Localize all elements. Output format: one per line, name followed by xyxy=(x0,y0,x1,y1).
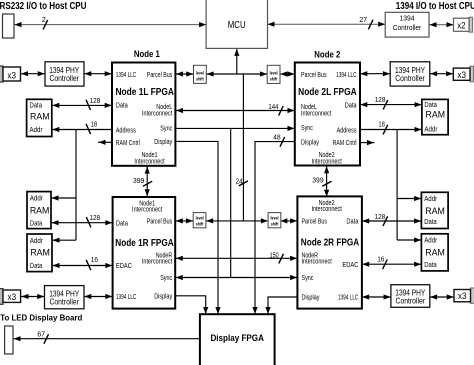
svg-text:Parcel Bus: Parcel Bus xyxy=(302,217,328,226)
svg-text:Address: Address xyxy=(337,125,357,134)
svg-text:Interconnect: Interconnect xyxy=(302,257,332,266)
svg-text:Data: Data xyxy=(424,260,437,269)
svg-text:399: 399 xyxy=(312,175,323,184)
level shift box 2 xyxy=(267,65,280,83)
wire x3 to 1394 PHY (bottom left) xyxy=(21,296,45,298)
svg-text:level: level xyxy=(196,71,204,76)
wire branch to RAM addr (mid left) xyxy=(51,197,76,199)
wire Data 128-bit: RAM - Node 1R xyxy=(51,222,113,224)
wire 1394 Controller to x2 connector xyxy=(429,24,454,26)
svg-text:level: level xyxy=(270,71,278,76)
svg-text:18: 18 xyxy=(378,120,385,129)
svg-text:Display: Display xyxy=(154,137,172,146)
wire bottom Sync: Node 1R - Node 2R xyxy=(175,277,297,279)
wire Node 2L 1394 LLC to 1394 PHY xyxy=(360,73,390,75)
svg-text:Node 2: Node 2 xyxy=(314,49,340,60)
RAM box top right xyxy=(422,99,448,134)
svg-text:Data: Data xyxy=(424,217,437,226)
wire branch to RAM addr (mid right) xyxy=(397,198,421,200)
svg-text:Sync: Sync xyxy=(302,273,314,282)
svg-text:Display FPGA: Display FPGA xyxy=(210,333,264,343)
wire Node2 Interconnect 399-bit between Node 2L and Node 2R xyxy=(326,166,328,198)
wire Address 18-bit: Node 1L - RAM xyxy=(52,129,112,131)
svg-text:Parcel Bus: Parcel Bus xyxy=(147,217,173,226)
svg-text:16: 16 xyxy=(377,255,384,264)
Node 2R FPGA box xyxy=(297,196,362,308)
wire Node 2L Display down to Display FPGA, 48-bit xyxy=(255,142,295,314)
wire branch to RAM addr (lower right) xyxy=(397,239,421,241)
svg-text:Controller: Controller xyxy=(49,298,79,307)
wire 1394 PHY to Node 1R 1394 LLC xyxy=(84,296,113,298)
svg-text:RAM: RAM xyxy=(30,112,50,122)
svg-text:128: 128 xyxy=(375,95,386,104)
wire top Parcel Bus: Node 1L - level shift - level shift - Node 2L xyxy=(175,73,193,75)
x3 connector bottom right xyxy=(471,288,474,303)
level shift box 3 xyxy=(193,213,206,228)
svg-text:Node 2L FPGA: Node 2L FPGA xyxy=(298,87,357,98)
svg-text:16: 16 xyxy=(91,255,98,264)
svg-text:Interconnect: Interconnect xyxy=(311,204,341,213)
wire RS232 connector to MCU, 2-bit xyxy=(14,24,206,26)
svg-text:1394: 1394 xyxy=(400,13,415,22)
Node 2L FPGA box xyxy=(295,63,360,166)
svg-text:150: 150 xyxy=(270,250,279,259)
svg-text:Addr: Addr xyxy=(424,236,438,245)
svg-text:shift: shift xyxy=(271,221,279,226)
svg-text:48: 48 xyxy=(273,133,280,142)
svg-text:128: 128 xyxy=(375,212,386,221)
RAM box mid right xyxy=(421,192,448,228)
svg-text:Interconnect: Interconnect xyxy=(142,257,172,266)
RS232 connector xyxy=(3,14,15,38)
wire 1394 PHY to x3 (bottom right) xyxy=(430,296,454,298)
svg-text:144: 144 xyxy=(268,102,278,111)
Node 1L FPGA box xyxy=(112,63,175,166)
svg-text:x3: x3 xyxy=(457,70,466,80)
wire Node1 Interconnect 399-bit between Node 1L and Node 1R xyxy=(146,166,148,197)
RAM box lower right xyxy=(421,234,448,271)
svg-text:Parcel Bus: Parcel Bus xyxy=(301,70,327,79)
svg-text:Data: Data xyxy=(116,219,129,228)
wire 1394 PHY to Node 1L 1394 LLC xyxy=(84,73,112,75)
wire bottom Parcel Bus: Node 1R - level shift - level shift - Node 2R xyxy=(175,220,193,222)
svg-text:RAM Cntrl: RAM Cntrl xyxy=(116,138,140,147)
svg-text:RAM: RAM xyxy=(30,248,50,258)
svg-text:Data: Data xyxy=(116,101,129,110)
svg-text:Node 1: Node 1 xyxy=(134,49,161,60)
wire Display FPGA to LED display connector, 67-bit xyxy=(13,338,200,340)
x3 connector bottom left xyxy=(0,289,3,305)
RAM box top left xyxy=(27,99,52,136)
level shift box 1 xyxy=(194,65,207,83)
svg-text:Display: Display xyxy=(302,293,320,302)
svg-text:RAM Cntrl: RAM Cntrl xyxy=(333,138,357,147)
svg-text:MCU: MCU xyxy=(228,20,246,31)
svg-text:Display: Display xyxy=(301,137,319,146)
wire address feed down to lower RAMs xyxy=(75,130,77,241)
wire Node 2R 1394 LLC to 1394 PHY xyxy=(362,296,391,298)
svg-text:level: level xyxy=(271,215,279,220)
wire Sync: Node 1L - Node 2L xyxy=(175,127,294,129)
wire Sync vertical drop to bottom sync net xyxy=(230,128,232,277)
wire MCU down to parcel-bus interconnect xyxy=(236,48,238,74)
Node 1R FPGA box xyxy=(113,197,176,309)
svg-text:Controller: Controller xyxy=(395,74,425,83)
svg-text:RAM: RAM xyxy=(30,206,50,216)
wire Node 1L Display down to Display FPGA xyxy=(175,141,218,313)
x3 connector top right xyxy=(470,66,474,81)
wire Data 128-bit: RAM - Node 1L xyxy=(52,104,112,106)
svg-text:128: 128 xyxy=(90,96,101,105)
svg-text:Addr: Addr xyxy=(424,194,438,203)
svg-text:1394 LLC: 1394 LLC xyxy=(336,70,357,79)
wire Data 128-bit: Node 2L - RAM xyxy=(360,104,422,106)
wire NodeR Interconnect: Node 1R - Node 2R, 150-bit xyxy=(175,257,297,259)
svg-text:RAM: RAM xyxy=(426,109,446,119)
wire RAM Cntrl stub (Node 1L) xyxy=(98,141,112,143)
svg-text:level: level xyxy=(196,215,204,220)
svg-text:18: 18 xyxy=(91,119,98,128)
x2 connector xyxy=(469,17,472,32)
svg-text:Address: Address xyxy=(116,125,136,134)
wire Address 18-bit: Node 2L - RAM xyxy=(360,129,422,131)
MCU box xyxy=(206,0,267,48)
svg-text:RAM: RAM xyxy=(425,247,445,257)
1394 PHY Controller box bottom right xyxy=(391,285,430,308)
svg-text:Data: Data xyxy=(346,217,359,226)
svg-text:Node 2R FPGA: Node 2R FPGA xyxy=(301,238,360,249)
wire Node 1R Display down to Display FPGA xyxy=(175,296,206,313)
svg-text:Sync: Sync xyxy=(160,123,172,132)
svg-text:Data: Data xyxy=(30,101,43,110)
svg-text:Interconnect: Interconnect xyxy=(132,205,162,214)
svg-text:Addr: Addr xyxy=(30,194,44,203)
svg-text:To LED Display Board: To LED Display Board xyxy=(0,313,82,322)
wire 1394 PHY to x3 (top right) xyxy=(430,73,454,75)
svg-text:Interconnect: Interconnect xyxy=(311,157,341,166)
wire RAM Cntrl stub (Node 2L) xyxy=(360,142,375,144)
svg-text:EDAC: EDAC xyxy=(342,260,359,269)
svg-text:128: 128 xyxy=(89,213,100,222)
wire Node 2R Display down to Display FPGA xyxy=(268,297,297,313)
wire branch to RAM addr (lower left) xyxy=(52,239,76,241)
svg-text:Data: Data xyxy=(345,100,358,109)
svg-text:Parcel Bus: Parcel Bus xyxy=(147,70,173,79)
1394 Controller box xyxy=(385,12,429,37)
wire x3 to 1394 PHY (top left) xyxy=(21,73,46,75)
wire NodeL Interconnect: Node 1L - Node 2L, 144-bit xyxy=(175,110,294,112)
svg-text:Controller: Controller xyxy=(393,23,422,32)
svg-text:Interconnect: Interconnect xyxy=(134,157,164,166)
svg-text:Addr: Addr xyxy=(30,236,44,245)
svg-text:Controller: Controller xyxy=(396,297,426,306)
wire EDAC 16-bit: Node 2R - RAM xyxy=(362,263,422,265)
svg-text:x3: x3 xyxy=(8,292,17,302)
svg-text:Addr: Addr xyxy=(30,125,44,134)
svg-text:RS232 I/O to Host CPU: RS232 I/O to Host CPU xyxy=(0,1,87,12)
svg-text:Data: Data xyxy=(30,261,43,270)
svg-text:27: 27 xyxy=(359,15,367,24)
svg-text:1394 LLC: 1394 LLC xyxy=(338,293,359,302)
svg-text:399: 399 xyxy=(133,176,144,185)
svg-text:Interconnect: Interconnect xyxy=(301,109,331,118)
x3 connector top left xyxy=(0,66,3,82)
svg-text:1394 LLC: 1394 LLC xyxy=(116,70,137,79)
1394 PHY Controller box top right xyxy=(390,62,430,86)
level shift box 4 xyxy=(268,213,281,228)
svg-text:EDAC: EDAC xyxy=(116,261,133,270)
svg-text:Sync: Sync xyxy=(160,273,172,282)
svg-text:Interconnect: Interconnect xyxy=(142,109,172,118)
svg-text:shift: shift xyxy=(270,77,278,82)
wire EDAC 16-bit: RAM - Node 1R xyxy=(52,265,113,267)
svg-text:shift: shift xyxy=(196,221,204,226)
svg-text:1394 LLC: 1394 LLC xyxy=(116,292,137,301)
svg-text:Data: Data xyxy=(424,100,437,109)
svg-text:Node 1L FPGA: Node 1L FPGA xyxy=(115,87,174,98)
1394 PHY Controller box bottom left xyxy=(45,286,85,309)
svg-text:Data: Data xyxy=(30,218,43,227)
wire MCU to 1394 Controller, 27-bit xyxy=(268,23,386,25)
svg-text:x3: x3 xyxy=(458,291,467,301)
svg-text:x3: x3 xyxy=(7,71,16,81)
Display FPGA box xyxy=(200,314,275,365)
svg-text:Sync: Sync xyxy=(301,123,313,132)
svg-text:x2: x2 xyxy=(457,20,465,30)
svg-text:2: 2 xyxy=(42,15,46,24)
svg-text:Addr: Addr xyxy=(424,125,438,134)
svg-text:RAM: RAM xyxy=(425,206,445,216)
wire 24-bit bus from top parcel line down to bottom parcel line xyxy=(242,74,244,221)
RAM box lower left xyxy=(27,234,52,272)
svg-text:Display: Display xyxy=(154,292,172,301)
svg-text:Controller: Controller xyxy=(49,74,79,83)
RAM box mid left xyxy=(27,192,51,229)
svg-text:1394 I/O to Host CPU: 1394 I/O to Host CPU xyxy=(396,1,474,12)
LED display connector xyxy=(5,326,13,354)
svg-text:67: 67 xyxy=(37,329,45,338)
svg-text:Node 1R FPGA: Node 1R FPGA xyxy=(115,238,174,249)
wire address feed down to lower RAMs (right) xyxy=(396,130,398,241)
wire Data 128-bit: Node 2R - RAM xyxy=(362,220,422,222)
svg-text:shift: shift xyxy=(196,77,204,82)
1394 PHY Controller box top left xyxy=(45,62,84,86)
